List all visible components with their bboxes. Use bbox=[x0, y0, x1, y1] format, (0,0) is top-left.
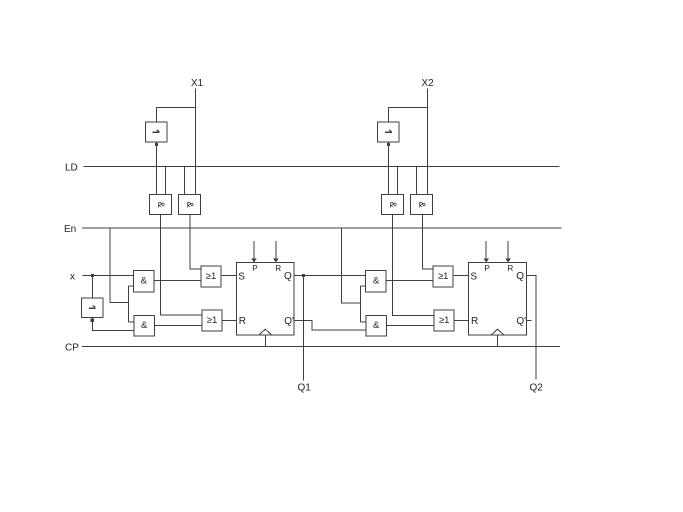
or-gate U15 bbox=[434, 310, 454, 331]
arrow FF1 R bbox=[273, 258, 279, 262]
wire FF1 Q' to U10 bbox=[294, 320, 366, 330]
wire X2 branch to inverter bbox=[389, 108, 428, 123]
svg-text:Q: Q bbox=[516, 271, 524, 282]
svg-text:R: R bbox=[239, 316, 246, 327]
arrow FF2 P bbox=[483, 258, 489, 262]
svg-text:&: & bbox=[373, 276, 380, 287]
wire U4 output to OR1 bbox=[190, 215, 201, 270]
wire U9 output to OR3 bbox=[386, 280, 433, 282]
node Q1 junction dot bbox=[302, 274, 305, 277]
svg-text:R: R bbox=[507, 264, 513, 273]
wire U15 output to FF2 R bbox=[454, 319, 468, 321]
wire FF2 R clear stub bbox=[507, 241, 509, 259]
svg-text:Q: Q bbox=[284, 271, 292, 282]
inverter U1 bbox=[146, 122, 168, 142]
svg-text:S: S bbox=[470, 271, 477, 282]
wire En to AND U6 bbox=[129, 321, 134, 323]
svg-text:Q': Q' bbox=[516, 316, 526, 327]
wire FF2 Q to Q2 bbox=[527, 276, 536, 380]
wire U1 output to AND gate bbox=[156, 142, 158, 195]
wire LD stub to U3 bbox=[165, 167, 167, 195]
svg-text:≥1: ≥1 bbox=[207, 315, 218, 326]
clock triangle FF2 bbox=[491, 329, 504, 335]
svg-text:X1: X1 bbox=[191, 78, 204, 89]
wire U10 output to OR4 bbox=[387, 324, 435, 326]
wire LD stub to U4 bbox=[184, 167, 186, 195]
wire En stub stage1 bbox=[110, 228, 129, 303]
svg-text:&: & bbox=[184, 201, 195, 208]
wire En stub stage2 bbox=[342, 228, 361, 303]
svg-text:X2: X2 bbox=[422, 78, 435, 89]
svg-text:≥1: ≥1 bbox=[439, 315, 450, 326]
svg-text:&: & bbox=[141, 276, 148, 287]
wire x input bbox=[83, 275, 134, 277]
and-gate U4 (LD AND X1) bbox=[179, 195, 201, 215]
arrow FF2 R bbox=[505, 258, 511, 262]
and-gate U6 bbox=[134, 316, 155, 337]
wire U5 output to OR1 bbox=[154, 280, 201, 282]
wire En jog vertical stage2 bbox=[360, 286, 362, 322]
wire U11 output to AND gate bbox=[388, 142, 390, 195]
wire X1 branch to inverter bbox=[157, 108, 196, 123]
wire En to AND U9 bbox=[361, 285, 366, 287]
wire U12 output to OR4 bbox=[393, 215, 435, 316]
node x wire junction dot bbox=[91, 274, 94, 277]
svg-text:CP: CP bbox=[65, 343, 79, 354]
wire LD stub to U13 bbox=[416, 167, 418, 195]
and-gate U5 bbox=[134, 271, 155, 293]
arrow FF1 P bbox=[251, 258, 257, 262]
wire FF2 P preset stub bbox=[485, 241, 487, 259]
svg-text:&: & bbox=[387, 201, 398, 208]
inverter U11 bbox=[378, 122, 400, 142]
wire U3 output to OR2 bbox=[161, 215, 203, 315]
and-gate U12 (LD AND /X2) bbox=[382, 195, 404, 215]
node U2 output dot bbox=[91, 319, 94, 322]
flip-flop FF1 bbox=[236, 262, 294, 335]
svg-text:R: R bbox=[471, 316, 478, 327]
wire FF2 Q' stub bbox=[527, 319, 532, 321]
svg-text:&: & bbox=[416, 201, 427, 208]
wire FF1 clock to CP bbox=[264, 335, 266, 347]
svg-text:P: P bbox=[252, 264, 258, 273]
wire U6 output to OR2 bbox=[155, 324, 203, 326]
and-gate U9 bbox=[366, 271, 387, 293]
net En bus line bbox=[82, 227, 562, 229]
inverter U2 bbox=[82, 298, 104, 318]
svg-text:Q': Q' bbox=[284, 316, 294, 327]
clock triangle FF1 bbox=[259, 329, 272, 335]
and-gate U3 (LD AND /X1) bbox=[150, 195, 172, 215]
wire U14 output to FF2 S bbox=[453, 275, 468, 277]
svg-text:≥1: ≥1 bbox=[438, 271, 449, 282]
svg-text:&: & bbox=[141, 320, 148, 331]
or-gate U14 bbox=[433, 266, 453, 287]
net CP bus line bbox=[82, 346, 560, 348]
wire U2 output to AND U6 bbox=[92, 318, 133, 331]
and-gate U13 (LD AND X2) bbox=[411, 195, 433, 215]
wire En to AND U5 bbox=[129, 285, 134, 287]
svg-text:LD: LD bbox=[65, 163, 78, 174]
wire En jog vertical stage1 bbox=[128, 286, 130, 322]
wire FF2 clock to CP bbox=[497, 335, 499, 347]
wire U13 output to OR3 bbox=[422, 215, 433, 270]
or-gate U8 bbox=[202, 310, 222, 331]
wire X1 vertical bbox=[195, 89, 197, 195]
wire X2 vertical bbox=[427, 89, 429, 195]
svg-text:&: & bbox=[373, 320, 380, 331]
svg-text:x: x bbox=[70, 272, 75, 283]
wire U7 output to FF1 S bbox=[221, 275, 236, 277]
svg-text:S: S bbox=[238, 271, 245, 282]
svg-text:&: & bbox=[155, 201, 166, 208]
and-gate U10 bbox=[366, 316, 387, 337]
svg-text:Q1: Q1 bbox=[298, 383, 312, 394]
wire En to AND U10 bbox=[361, 321, 366, 323]
node U1 output dot bbox=[155, 143, 158, 146]
wire Q1 output down bbox=[303, 276, 305, 381]
svg-text:≥1: ≥1 bbox=[206, 271, 217, 282]
wire FF1 P preset stub bbox=[253, 241, 255, 259]
wire FF1 Q to U9 bbox=[294, 275, 365, 277]
wire LD stub to U12 bbox=[397, 167, 399, 195]
net LD bus line bbox=[84, 166, 560, 168]
or-gate U7 bbox=[201, 266, 221, 287]
svg-text:R: R bbox=[275, 264, 281, 273]
svg-text:En: En bbox=[64, 224, 76, 235]
flip-flop FF2 bbox=[469, 262, 527, 335]
wire FF1 R clear stub bbox=[275, 241, 277, 259]
wire U8 output to FF1 R bbox=[222, 319, 236, 321]
node U11 output dot bbox=[387, 143, 390, 146]
svg-text:P: P bbox=[484, 264, 490, 273]
wire x branch down to inverter U2 bbox=[92, 276, 94, 299]
svg-text:Q2: Q2 bbox=[530, 383, 544, 394]
